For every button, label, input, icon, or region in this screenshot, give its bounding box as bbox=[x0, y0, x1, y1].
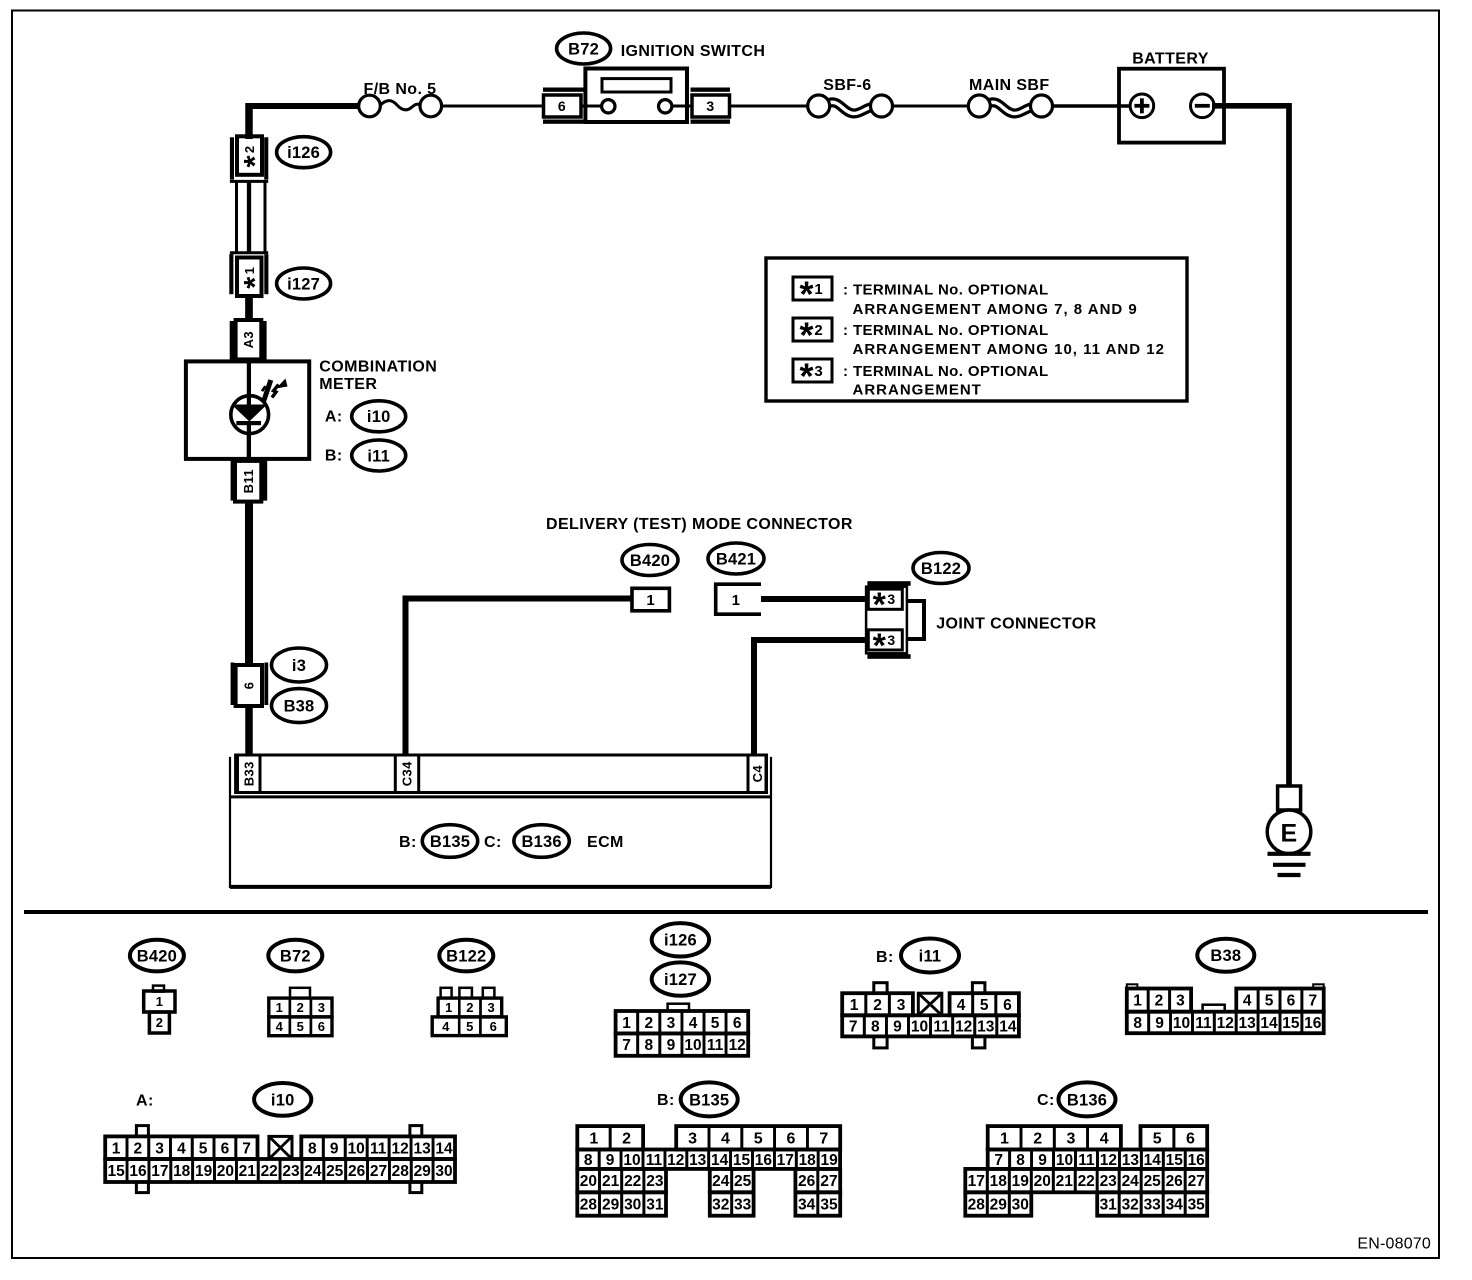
indicator LED D1 (check engine lamp) bbox=[231, 379, 288, 460]
ECM terminal strip bbox=[230, 755, 771, 888]
svg-text:11: 11 bbox=[370, 1140, 387, 1157]
connector i3/B38 pin 6 bbox=[231, 663, 269, 707]
connector label B420 bbox=[622, 545, 678, 576]
svg-text:1: 1 bbox=[156, 994, 163, 1009]
svg-text:1: 1 bbox=[1000, 1131, 1009, 1148]
svg-text:4: 4 bbox=[1100, 1131, 1109, 1148]
combination meter connector pin A3 bbox=[230, 320, 267, 361]
connector diagram C: B136 bbox=[965, 1082, 1207, 1215]
ECM pin B33 bbox=[238, 755, 261, 793]
svg-text:*: * bbox=[873, 627, 887, 665]
svg-text:4: 4 bbox=[721, 1131, 730, 1148]
connector label B72 bbox=[557, 33, 611, 64]
svg-text:12: 12 bbox=[1100, 1152, 1117, 1169]
svg-text:B421: B421 bbox=[716, 550, 756, 568]
connector diagram B: B135 bbox=[577, 1082, 840, 1215]
svg-text:14: 14 bbox=[711, 1152, 729, 1169]
svg-text:3: 3 bbox=[814, 363, 822, 380]
svg-text:*: * bbox=[237, 155, 272, 168]
connector diagram i127 bbox=[616, 962, 749, 1055]
svg-text:30: 30 bbox=[435, 1163, 452, 1180]
svg-text:B72: B72 bbox=[280, 948, 311, 966]
svg-text:11: 11 bbox=[1195, 1015, 1212, 1032]
connector i126 pin *2 bbox=[230, 136, 272, 179]
svg-text:27: 27 bbox=[1188, 1173, 1205, 1190]
legend text *3 bbox=[843, 363, 1049, 399]
svg-text:5: 5 bbox=[711, 1015, 720, 1032]
svg-text:ECM: ECM bbox=[587, 834, 624, 851]
svg-text:2: 2 bbox=[1155, 993, 1164, 1010]
svg-text:28: 28 bbox=[968, 1197, 986, 1214]
svg-text:4: 4 bbox=[177, 1140, 186, 1157]
svg-text:10: 10 bbox=[348, 1140, 365, 1157]
delivery connector B421 pin 1 bbox=[716, 584, 761, 614]
svg-text:2: 2 bbox=[156, 1015, 163, 1030]
legend symbol *1 bbox=[793, 274, 832, 315]
svg-text:5: 5 bbox=[199, 1140, 208, 1157]
ignition switch B72 body bbox=[581, 69, 692, 123]
svg-text:B122: B122 bbox=[446, 948, 486, 966]
svg-text:*: * bbox=[799, 356, 813, 397]
svg-text:29: 29 bbox=[602, 1197, 620, 1214]
svg-text:B:: B: bbox=[399, 834, 417, 851]
svg-text:2: 2 bbox=[644, 1015, 653, 1032]
svg-text:18: 18 bbox=[173, 1163, 191, 1180]
svg-text:7: 7 bbox=[242, 1140, 251, 1157]
svg-text:3: 3 bbox=[1067, 1131, 1076, 1148]
svg-text:i10: i10 bbox=[367, 408, 391, 426]
legend symbol *3 bbox=[793, 356, 832, 397]
svg-text:5: 5 bbox=[466, 1019, 473, 1034]
svg-text:*: * bbox=[799, 315, 813, 356]
svg-text:13: 13 bbox=[1122, 1152, 1140, 1169]
svg-text:6: 6 bbox=[242, 682, 257, 690]
svg-text:3: 3 bbox=[688, 1131, 697, 1148]
svg-text:JOINT CONNECTOR: JOINT CONNECTOR bbox=[936, 615, 1096, 632]
svg-text:C34: C34 bbox=[400, 761, 415, 786]
svg-text:31: 31 bbox=[1100, 1197, 1118, 1214]
svg-text:26: 26 bbox=[1166, 1173, 1184, 1190]
svg-text:3: 3 bbox=[155, 1140, 164, 1157]
svg-text:1: 1 bbox=[276, 1000, 283, 1015]
svg-text:2: 2 bbox=[873, 997, 882, 1014]
svg-text:15: 15 bbox=[1282, 1015, 1300, 1032]
wire: meter pin B11 to connector i3/B38 pin 6 bbox=[245, 501, 253, 664]
svg-text:BATTERY: BATTERY bbox=[1132, 51, 1209, 68]
connector diagram i126 bbox=[652, 923, 709, 956]
svg-text:35: 35 bbox=[1188, 1197, 1206, 1214]
fuse F/B No. 5 bbox=[359, 95, 442, 117]
label MAIN SBF bbox=[969, 77, 1050, 94]
svg-text:ARRANGEMENT: ARRANGEMENT bbox=[853, 382, 982, 399]
ECM pin C4 bbox=[748, 755, 767, 793]
svg-text:5: 5 bbox=[1153, 1131, 1162, 1148]
svg-text:B72: B72 bbox=[568, 40, 599, 58]
svg-text:11: 11 bbox=[933, 1018, 950, 1035]
svg-text:13: 13 bbox=[977, 1018, 995, 1035]
svg-text:6: 6 bbox=[490, 1019, 497, 1034]
joint connector B122 body bbox=[866, 581, 924, 665]
svg-text:COMBINATION: COMBINATION bbox=[319, 359, 437, 376]
svg-text:5: 5 bbox=[754, 1131, 763, 1148]
svg-text:IGNITION SWITCH: IGNITION SWITCH bbox=[621, 43, 766, 60]
svg-text:i10: i10 bbox=[271, 1091, 295, 1109]
svg-text:30: 30 bbox=[624, 1197, 641, 1214]
svg-text:C:: C: bbox=[1037, 1092, 1055, 1109]
svg-text:B:: B: bbox=[657, 1092, 675, 1109]
svg-text:8: 8 bbox=[1016, 1152, 1025, 1169]
svg-text:16: 16 bbox=[1188, 1152, 1206, 1169]
svg-text:17: 17 bbox=[151, 1163, 168, 1180]
svg-text:i11: i11 bbox=[919, 947, 942, 965]
connector diagram B72 bbox=[268, 940, 332, 1036]
svg-text:11: 11 bbox=[707, 1037, 724, 1054]
svg-text:11: 11 bbox=[1078, 1152, 1095, 1169]
svg-text:B33: B33 bbox=[241, 761, 256, 786]
svg-text:7: 7 bbox=[994, 1152, 1003, 1169]
harness section between i126 and i127 bbox=[230, 181, 268, 253]
svg-text:16: 16 bbox=[1304, 1015, 1322, 1032]
svg-text:19: 19 bbox=[195, 1163, 213, 1180]
svg-text:23: 23 bbox=[282, 1163, 300, 1180]
svg-text:26: 26 bbox=[798, 1173, 816, 1190]
svg-text:9: 9 bbox=[893, 1018, 902, 1035]
svg-text:20: 20 bbox=[217, 1163, 234, 1180]
svg-text:8: 8 bbox=[644, 1037, 653, 1054]
svg-text:12: 12 bbox=[667, 1152, 684, 1169]
svg-text:14: 14 bbox=[1260, 1015, 1278, 1032]
svg-text:23: 23 bbox=[1100, 1173, 1118, 1190]
svg-text:6: 6 bbox=[733, 1015, 742, 1032]
svg-text:3: 3 bbox=[887, 632, 895, 648]
svg-text:1: 1 bbox=[622, 1015, 631, 1032]
svg-text:10: 10 bbox=[684, 1037, 701, 1054]
svg-text:10: 10 bbox=[1173, 1015, 1190, 1032]
svg-text:2: 2 bbox=[242, 146, 257, 153]
svg-text:9: 9 bbox=[606, 1152, 615, 1169]
svg-text:SBF-6: SBF-6 bbox=[823, 77, 871, 94]
svg-text:29: 29 bbox=[414, 1163, 432, 1180]
legend text *1 bbox=[843, 281, 1138, 318]
section divider line bbox=[24, 910, 1428, 914]
svg-text:1: 1 bbox=[445, 1000, 452, 1015]
svg-text:34: 34 bbox=[798, 1197, 816, 1214]
svg-text:1: 1 bbox=[242, 267, 257, 274]
svg-text:25: 25 bbox=[1144, 1173, 1162, 1190]
connector label i127 bbox=[277, 268, 331, 299]
connector diagram B38 bbox=[1127, 939, 1324, 1033]
svg-text:24: 24 bbox=[304, 1163, 322, 1180]
svg-text:23: 23 bbox=[646, 1173, 664, 1190]
ground E bbox=[1267, 786, 1311, 875]
svg-text:2: 2 bbox=[1033, 1131, 1042, 1148]
svg-text:7: 7 bbox=[849, 1018, 858, 1035]
fusible link MAIN SBF bbox=[968, 95, 1052, 117]
svg-text:ARRANGEMENT AMONG 10, 11 AND 1: ARRANGEMENT AMONG 10, 11 AND 12 bbox=[853, 341, 1165, 358]
ECM box bbox=[230, 797, 771, 887]
combination meter connector pin B11 bbox=[231, 461, 268, 502]
svg-text:26: 26 bbox=[348, 1163, 366, 1180]
svg-text:3: 3 bbox=[318, 1000, 325, 1015]
svg-text:*: * bbox=[237, 276, 272, 289]
wire: ignition switch pin 3 to SBF-6 bbox=[730, 105, 808, 108]
svg-text:22: 22 bbox=[261, 1163, 278, 1180]
svg-text:4: 4 bbox=[1243, 993, 1252, 1010]
svg-text:22: 22 bbox=[1078, 1173, 1095, 1190]
svg-text:33: 33 bbox=[734, 1197, 752, 1214]
svg-text:2: 2 bbox=[297, 1000, 304, 1015]
label SBF-6 bbox=[823, 77, 871, 94]
svg-text:METER: METER bbox=[319, 376, 377, 393]
svg-text:20: 20 bbox=[1034, 1173, 1051, 1190]
svg-text:3: 3 bbox=[887, 591, 895, 607]
svg-text:B:: B: bbox=[876, 949, 894, 966]
connector diagram A: i10 bbox=[105, 1083, 455, 1193]
svg-text:28: 28 bbox=[580, 1197, 598, 1214]
note box: terminal arrangement legend bbox=[766, 258, 1187, 401]
label B: i11 bbox=[325, 440, 406, 471]
svg-text:1: 1 bbox=[646, 592, 655, 609]
svg-text:1: 1 bbox=[1133, 993, 1142, 1010]
svg-text:3: 3 bbox=[487, 1000, 494, 1015]
svg-text:A:: A: bbox=[325, 409, 343, 426]
svg-text:22: 22 bbox=[624, 1173, 641, 1190]
label B: B135 C: B136 ECM bbox=[399, 825, 624, 858]
svg-text:16: 16 bbox=[755, 1152, 773, 1169]
svg-text:13: 13 bbox=[689, 1152, 707, 1169]
svg-text:MAIN SBF: MAIN SBF bbox=[969, 77, 1050, 94]
svg-text:32: 32 bbox=[712, 1197, 729, 1214]
svg-text:8: 8 bbox=[308, 1140, 317, 1157]
legend symbol *2 bbox=[793, 315, 832, 356]
svg-text:24: 24 bbox=[712, 1173, 730, 1190]
svg-text:12: 12 bbox=[729, 1037, 746, 1054]
svg-text:35: 35 bbox=[820, 1197, 838, 1214]
label DELIVERY (TEST) MODE CONNECTOR bbox=[546, 516, 853, 533]
svg-text:24: 24 bbox=[1122, 1173, 1140, 1190]
svg-text:18: 18 bbox=[799, 1152, 817, 1169]
svg-text:11: 11 bbox=[646, 1152, 663, 1169]
svg-text:5: 5 bbox=[980, 997, 989, 1014]
svg-text:B:: B: bbox=[325, 448, 343, 465]
legend text *2 bbox=[843, 322, 1165, 358]
svg-text:2: 2 bbox=[814, 322, 822, 339]
svg-text:B11: B11 bbox=[241, 469, 256, 493]
svg-text:6: 6 bbox=[221, 1140, 230, 1157]
svg-text:B38: B38 bbox=[1210, 947, 1241, 965]
connector diagram B122 bbox=[432, 940, 506, 1036]
svg-text:2: 2 bbox=[622, 1131, 631, 1148]
svg-text:1: 1 bbox=[732, 592, 741, 609]
wire: ECM pin C34 to delivery connector B420 pin 1 bbox=[406, 599, 633, 757]
svg-text:15: 15 bbox=[1166, 1152, 1184, 1169]
svg-text:6: 6 bbox=[787, 1131, 796, 1148]
svg-text:6: 6 bbox=[1287, 993, 1296, 1010]
svg-text:8: 8 bbox=[584, 1152, 593, 1169]
svg-text:7: 7 bbox=[1308, 993, 1317, 1010]
svg-text:7: 7 bbox=[622, 1037, 631, 1054]
svg-text:B122: B122 bbox=[921, 560, 961, 578]
ignition switch connector pin 3 (B72) bbox=[691, 88, 731, 124]
label COMBINATION METER bbox=[319, 359, 437, 394]
svg-text:28: 28 bbox=[392, 1163, 410, 1180]
svg-text:9: 9 bbox=[330, 1140, 339, 1157]
wire: SBF-6 to MAIN SBF bbox=[892, 105, 969, 108]
svg-text:21: 21 bbox=[1056, 1173, 1074, 1190]
wire: F/B No. 5 to ignition switch pin 6 bbox=[441, 105, 543, 108]
connector label B421 bbox=[708, 543, 764, 574]
delivery connector B420 pin 1 bbox=[632, 588, 669, 611]
svg-text:2: 2 bbox=[133, 1140, 142, 1157]
wire: ECM pin C4 to joint connector bbox=[754, 640, 867, 756]
svg-text:ARRANGEMENT AMONG 7, 8 AND 9: ARRANGEMENT AMONG 7, 8 AND 9 bbox=[853, 301, 1138, 318]
svg-text:B420: B420 bbox=[137, 948, 177, 966]
connector label B122 bbox=[913, 553, 969, 584]
svg-text:33: 33 bbox=[1144, 1197, 1162, 1214]
label IGNITION SWITCH bbox=[621, 43, 766, 60]
svg-text:3: 3 bbox=[667, 1015, 676, 1032]
connector i127 pin *1 bbox=[229, 254, 272, 296]
svg-text:B136: B136 bbox=[1067, 1091, 1107, 1109]
svg-text:14: 14 bbox=[1144, 1152, 1162, 1169]
svg-text:2: 2 bbox=[466, 1000, 473, 1015]
connector label B38 bbox=[272, 689, 327, 723]
svg-text:1: 1 bbox=[814, 281, 822, 298]
wire: battery negative to ground E bbox=[1212, 106, 1289, 787]
svg-text:1: 1 bbox=[589, 1131, 598, 1148]
svg-text:7: 7 bbox=[819, 1131, 828, 1148]
battery BAT bbox=[1119, 51, 1224, 143]
svg-text:3: 3 bbox=[897, 997, 906, 1014]
figure number EN-08070 bbox=[1357, 1235, 1431, 1252]
label F/B No. 5 bbox=[364, 81, 437, 98]
wire inside combination meter bbox=[247, 361, 251, 459]
svg-text:i127: i127 bbox=[287, 275, 320, 293]
svg-text:i126: i126 bbox=[287, 144, 320, 162]
svg-text:31: 31 bbox=[646, 1197, 664, 1214]
ECM pin C34 bbox=[395, 755, 418, 793]
svg-text:16: 16 bbox=[129, 1163, 147, 1180]
svg-text:B136: B136 bbox=[521, 833, 561, 851]
svg-text:i126: i126 bbox=[664, 932, 697, 950]
svg-text:8: 8 bbox=[871, 1018, 880, 1035]
svg-text:6: 6 bbox=[1186, 1131, 1195, 1148]
fusible link SBF-6 bbox=[808, 95, 893, 117]
connector diagram B420 bbox=[130, 940, 184, 1033]
svg-text:i3: i3 bbox=[292, 657, 306, 675]
svg-text:12: 12 bbox=[391, 1140, 408, 1157]
svg-text:15: 15 bbox=[733, 1152, 751, 1169]
svg-text:15: 15 bbox=[107, 1163, 125, 1180]
connector label i126 bbox=[277, 137, 331, 168]
svg-text:17: 17 bbox=[777, 1152, 794, 1169]
svg-text:4: 4 bbox=[689, 1015, 698, 1032]
svg-text:17: 17 bbox=[968, 1173, 985, 1190]
svg-text:*: * bbox=[873, 586, 887, 624]
svg-text:12: 12 bbox=[1217, 1015, 1234, 1032]
svg-text:1: 1 bbox=[112, 1140, 121, 1157]
svg-text:A:: A: bbox=[136, 1093, 154, 1110]
svg-text:10: 10 bbox=[623, 1152, 640, 1169]
svg-text:*: * bbox=[799, 274, 813, 315]
svg-text:10: 10 bbox=[911, 1018, 928, 1035]
svg-text:6: 6 bbox=[1003, 997, 1012, 1014]
svg-text:14: 14 bbox=[435, 1140, 453, 1157]
svg-text:13: 13 bbox=[413, 1140, 431, 1157]
svg-text:18: 18 bbox=[990, 1173, 1008, 1190]
svg-text:B135: B135 bbox=[689, 1091, 729, 1109]
svg-text:21: 21 bbox=[239, 1163, 257, 1180]
svg-text:10: 10 bbox=[1056, 1152, 1073, 1169]
svg-text:i127: i127 bbox=[664, 971, 697, 989]
svg-text:3: 3 bbox=[1176, 993, 1185, 1010]
svg-text:6: 6 bbox=[318, 1019, 325, 1034]
svg-text:i11: i11 bbox=[367, 447, 390, 465]
wire: pin 6 to ECM pin B33 bbox=[245, 706, 253, 756]
svg-text:8: 8 bbox=[1133, 1015, 1142, 1032]
svg-text:21: 21 bbox=[602, 1173, 620, 1190]
svg-text:25: 25 bbox=[734, 1173, 752, 1190]
svg-text:B38: B38 bbox=[284, 698, 315, 716]
ignition switch connector pin 6 (B72) bbox=[543, 88, 585, 124]
label JOINT CONNECTOR bbox=[936, 615, 1096, 632]
connector label i3 bbox=[272, 648, 327, 682]
svg-text:9: 9 bbox=[1038, 1152, 1047, 1169]
svg-text:B135: B135 bbox=[430, 833, 470, 851]
svg-text:4: 4 bbox=[276, 1019, 284, 1034]
svg-text:19: 19 bbox=[1012, 1173, 1030, 1190]
wire: i127 to combination meter pin A3 bbox=[245, 294, 253, 322]
svg-text:EN-08070: EN-08070 bbox=[1357, 1235, 1431, 1252]
svg-text:A3: A3 bbox=[241, 331, 256, 348]
combination meter box bbox=[186, 361, 309, 459]
svg-text:E: E bbox=[1280, 820, 1297, 848]
svg-text:25: 25 bbox=[326, 1163, 344, 1180]
svg-text:14: 14 bbox=[999, 1018, 1017, 1035]
svg-text:C:: C: bbox=[484, 834, 502, 851]
svg-text:: TERMINAL No. OPTIONAL: : TERMINAL No. OPTIONAL bbox=[843, 363, 1049, 380]
svg-text:19: 19 bbox=[820, 1152, 838, 1169]
label A: i10 bbox=[325, 401, 406, 432]
svg-text:4: 4 bbox=[442, 1019, 450, 1034]
svg-text:5: 5 bbox=[297, 1019, 304, 1034]
svg-text:29: 29 bbox=[990, 1197, 1008, 1214]
svg-text:1: 1 bbox=[850, 997, 859, 1014]
svg-text:30: 30 bbox=[1012, 1197, 1029, 1214]
svg-text:27: 27 bbox=[370, 1163, 387, 1180]
svg-text:32: 32 bbox=[1122, 1197, 1139, 1214]
svg-text:: TERMINAL No. OPTIONAL: : TERMINAL No. OPTIONAL bbox=[843, 281, 1049, 298]
svg-text:: TERMINAL No. OPTIONAL: : TERMINAL No. OPTIONAL bbox=[843, 322, 1049, 339]
svg-text:34: 34 bbox=[1166, 1197, 1184, 1214]
svg-text:12: 12 bbox=[955, 1018, 972, 1035]
connector diagram B: i11 bbox=[842, 939, 1019, 1048]
svg-text:6: 6 bbox=[558, 98, 566, 114]
svg-text:F/B No. 5: F/B No. 5 bbox=[364, 81, 437, 98]
svg-text:27: 27 bbox=[820, 1173, 837, 1190]
svg-text:5: 5 bbox=[1265, 993, 1274, 1010]
svg-text:20: 20 bbox=[580, 1173, 597, 1190]
svg-text:C4: C4 bbox=[750, 765, 765, 783]
wire: battery feed junction corner to F/B No. 5 bbox=[246, 103, 359, 139]
svg-text:B420: B420 bbox=[630, 552, 670, 570]
wire: delivery connector B421 to joint connector bbox=[761, 596, 867, 602]
svg-text:9: 9 bbox=[1155, 1015, 1164, 1032]
svg-text:4: 4 bbox=[957, 997, 966, 1014]
wire: MAIN SBF to battery positive bbox=[1052, 104, 1130, 108]
svg-text:9: 9 bbox=[667, 1037, 676, 1054]
svg-text:13: 13 bbox=[1238, 1015, 1256, 1032]
